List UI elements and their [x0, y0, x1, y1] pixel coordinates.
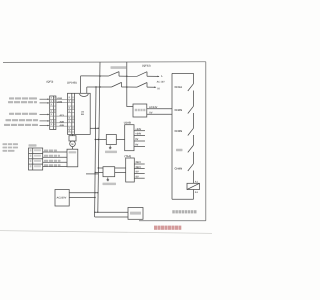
svg-text:+24V: +24V: [135, 133, 141, 136]
svg-text:0V: 0V: [135, 138, 138, 141]
svg-text:N: N: [158, 86, 160, 90]
svg-text:A2B: A2B: [60, 124, 65, 127]
svg-text:AC1: AC1: [60, 114, 65, 117]
svg-text:+24V: +24V: [135, 128, 141, 131]
svg-text:DKV: DKV: [136, 166, 142, 169]
svg-text:L1B2: L1B2: [57, 100, 63, 103]
svg-text:AC220V: AC220V: [57, 197, 67, 200]
svg-text:AC24V: AC24V: [149, 106, 158, 109]
svg-text:CH3N: CH3N: [175, 129, 183, 133]
svg-text:(1P24B): (1P24B): [67, 82, 77, 85]
svg-text:M: M: [71, 143, 73, 146]
svg-text:0V: 0V: [136, 175, 139, 178]
svg-text:AC 12V: AC 12V: [157, 80, 166, 83]
svg-text:CH1A: CH1A: [175, 85, 183, 89]
svg-text:L1B1: L1B1: [57, 97, 63, 100]
svg-text:L: L: [161, 74, 163, 78]
svg-text:0V: 0V: [135, 144, 138, 147]
svg-text:(QF22): (QF22): [142, 65, 150, 68]
svg-text:DKV: DKV: [136, 161, 142, 164]
svg-text:0V: 0V: [149, 111, 152, 114]
svg-text:A2B: A2B: [60, 121, 65, 124]
svg-text:(T1A): (T1A): [125, 155, 132, 158]
svg-text:CH4N: CH4N: [175, 167, 183, 171]
svg-text:(QF3): (QF3): [47, 80, 54, 83]
svg-text:U1AB: U1AB: [124, 122, 131, 125]
svg-text:CH2N: CH2N: [175, 108, 183, 112]
svg-text:0V: 0V: [136, 171, 139, 174]
